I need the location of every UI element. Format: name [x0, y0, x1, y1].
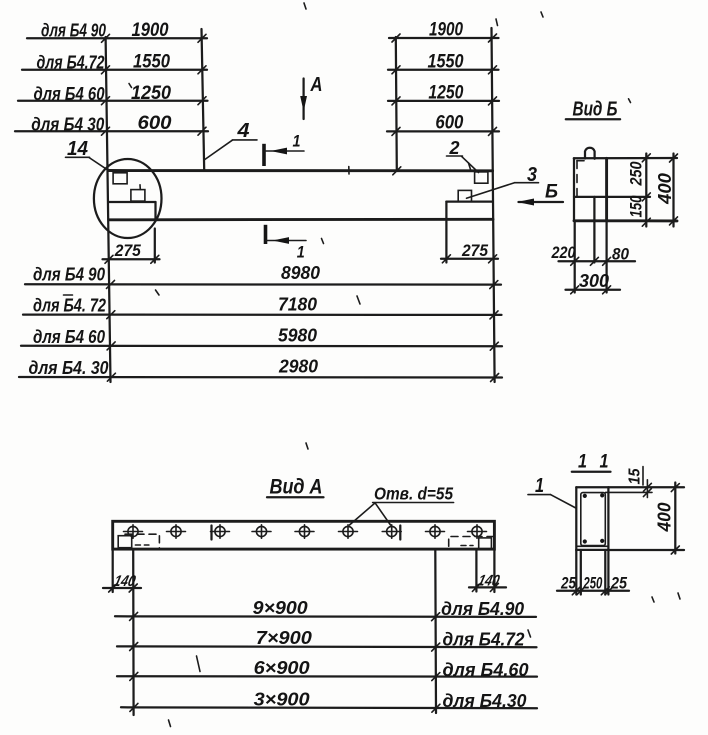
svg-text:для Б4 60: для Б4 60 [34, 83, 106, 104]
svg-text:140: 140 [476, 573, 501, 590]
svg-text:1900: 1900 [429, 19, 463, 41]
section outer right edge [607, 487, 609, 550]
extension right edge down to 300 dim [605, 221, 607, 293]
svg-text:4: 4 [236, 120, 249, 142]
dimension line row 1 (9x900) [115, 615, 536, 618]
speckle [357, 296, 360, 304]
ticks 220/80 [571, 257, 611, 265]
svg-text:1: 1 [293, 131, 301, 150]
holes label underline [373, 502, 454, 504]
svg-text:2980: 2980 [278, 357, 318, 377]
ticks 400 [671, 484, 679, 554]
ticks 250/150 [642, 154, 650, 226]
rebar dot top-left [583, 494, 587, 498]
svg-text:для Б4. 72: для Б4. 72 [33, 295, 107, 316]
speckle [496, 19, 498, 26]
hole 3 [211, 525, 230, 538]
ticks at left extension [107, 280, 116, 381]
svg-text:1: 1 [535, 475, 544, 497]
hidden ledge plan left (dashed) [125, 534, 159, 548]
extension below: outer-right [607, 550, 609, 595]
label 3 leader [467, 183, 515, 199]
top extension to 400 dim [609, 486, 684, 488]
extension below: inner-left [580, 550, 582, 595]
dim 140 right: dimension line [469, 586, 506, 588]
dim line 300 [566, 289, 621, 291]
dimension line row 3 (1250) [18, 100, 208, 102]
svg-text:3×900: 3×900 [254, 689, 311, 710]
svg-text:150: 150 [627, 195, 646, 217]
svg-text:275: 275 [461, 242, 489, 260]
hidden ledge plan right (dashed) [449, 537, 494, 550]
ticks 25/250/25 [572, 587, 613, 595]
section bottom edge [576, 549, 608, 551]
speckle [652, 597, 654, 602]
extension line left (x=396 down to beam top) [396, 37, 397, 170]
dim 140 left: ticks [109, 584, 138, 592]
right ledge top [446, 200, 492, 202]
svg-text:6×900: 6×900 [254, 657, 311, 678]
dim 275 left: extension line [154, 229, 156, 263]
dimension line row 4 (3x900) [121, 706, 537, 709]
text 15 underline [642, 467, 644, 486]
section outer top edge [576, 486, 608, 488]
section outer left edge [575, 487, 577, 550]
speckle [322, 239, 324, 244]
extension below: outer-left [575, 550, 577, 595]
extension left edge down to 300 dim [574, 221, 576, 293]
dimension line row 1 (1900) [389, 37, 499, 39]
dim line 220/80 [559, 260, 636, 262]
dim 275 left: ticks [105, 255, 159, 263]
dimension line row 4 (2980) [19, 376, 502, 379]
inner bottom line (wall) [576, 545, 608, 547]
dimension line row 2 (1550) [388, 69, 499, 71]
svg-text:1250: 1250 [131, 82, 171, 104]
holes leader 1 [350, 503, 376, 525]
speckle [169, 720, 171, 727]
detail circle at left end [94, 159, 162, 238]
ticks 400 [670, 154, 678, 225]
extension line right (x=201.5 down to beam top) [202, 29, 205, 170]
dimension line row 3 (1250) [388, 100, 499, 102]
inner stirrup [581, 493, 606, 546]
dim line 25/250/25 [557, 590, 629, 592]
svg-text:250: 250 [627, 161, 646, 186]
extension line for 15 (stirrup top) [606, 491, 653, 493]
svg-text:400: 400 [654, 172, 675, 205]
section mark 1 top: arrow line [265, 150, 305, 152]
svg-text:Вид А: Вид А [270, 476, 323, 499]
label 14 underline [66, 156, 90, 158]
svg-text:25: 25 [560, 573, 576, 592]
svg-text:140: 140 [112, 573, 137, 590]
svg-text:7180: 7180 [278, 295, 317, 315]
svg-text:для Б4.30: для Б4.30 [443, 690, 528, 711]
dimension line row 2 (7180) [23, 313, 502, 316]
extension below: inner-right [604, 550, 606, 595]
dim line 400 [672, 154, 674, 227]
speckle [541, 12, 543, 17]
ticks at right extension [490, 281, 499, 382]
dimension line row 3 (6x900) [117, 675, 537, 678]
svg-text:Б: Б [545, 182, 558, 203]
view arrow B: shaft [519, 201, 564, 203]
svg-text:7×900: 7×900 [256, 627, 313, 648]
extension line left (beam end, continues to lower block) [106, 37, 111, 382]
hole 7 [382, 525, 401, 538]
left ledge step [154, 202, 156, 220]
svg-text:1900: 1900 [132, 19, 169, 41]
tick marks right column [198, 34, 206, 135]
svg-text:1250: 1250 [428, 82, 463, 104]
inner vertical (ledge 80) extending to 220/80 dim [593, 197, 595, 263]
speckle [678, 593, 680, 599]
section mark 1 bottom: cut bar [264, 225, 268, 244]
title underline [267, 496, 324, 498]
svg-text:для Б4.90: для Б4.90 [441, 598, 525, 619]
small mark above left lower plate [139, 185, 141, 190]
dim line 250/150 [645, 154, 647, 227]
svg-text:1: 1 [578, 452, 587, 473]
speckle [304, 3, 306, 9]
label 2 leader [462, 156, 479, 172]
block right edge [605, 158, 608, 221]
right ledge step [445, 202, 447, 219]
section mark 1 bottom: arrowhead [273, 237, 290, 244]
svg-text:600: 600 [435, 112, 463, 134]
label 3 underline [515, 182, 539, 184]
dim 140 right: ticks [472, 583, 498, 591]
ticks at separator [432, 613, 440, 713]
svg-text:250: 250 [583, 574, 603, 592]
label 4 leader [205, 140, 233, 159]
label 14 leader [89, 158, 108, 171]
dim 275 right: dimension line [441, 258, 498, 260]
beam bottom edge [109, 218, 493, 221]
speckle [629, 99, 631, 103]
speckle [528, 630, 531, 637]
ticks at left vertical [130, 612, 138, 711]
title underline [566, 118, 620, 120]
svg-text:300: 300 [579, 271, 609, 291]
svg-text:15: 15 [627, 468, 644, 484]
rebar dot bottom-left [583, 539, 587, 543]
hidden dashes bottom right [461, 545, 473, 547]
dimension line row 2 (7x900) [117, 645, 537, 648]
dimension line row 4 (600) [387, 130, 499, 132]
tick marks left column [392, 34, 400, 135]
embedded plate right upper (pos.2) [475, 172, 488, 183]
dimension line row 1 (1900) [27, 37, 207, 39]
dimension line row 3 (5980) [21, 345, 502, 348]
speckle [469, 163, 472, 171]
speckle [129, 84, 132, 88]
view arrow A: head [300, 96, 307, 112]
block left edge [573, 158, 575, 221]
dim line 15 [646, 480, 648, 498]
hole 6 [339, 525, 358, 538]
svg-text:для Б4.60: для Б4.60 [443, 659, 530, 680]
svg-text:9×900: 9×900 [253, 597, 309, 618]
ticks 15 [643, 483, 651, 496]
rebar dot bottom-right [600, 539, 604, 543]
speckle [197, 656, 201, 672]
extension line right (beam right end, continues down through beam) [492, 28, 495, 382]
hidden dashes bottom left [135, 544, 149, 546]
dimension line row 2 (1550) [22, 69, 207, 71]
embedded plate left upper [113, 173, 127, 184]
hidden dash top [577, 160, 584, 162]
svg-text:для Б4.72: для Б4.72 [37, 52, 106, 73]
separator vertical (holes extension) [434, 550, 437, 713]
embedded plate right lower (pos.3) [458, 190, 471, 201]
dim 275 left: dimension line [103, 258, 160, 260]
left ledge top [109, 201, 156, 203]
macron over B4 row 2 [64, 294, 73, 296]
label 1 leader line [551, 495, 576, 508]
svg-text:80: 80 [612, 245, 629, 264]
hole 4 [252, 525, 271, 538]
mark I right of hole 7 [399, 526, 401, 540]
bottom extension to 400 dim [609, 549, 684, 551]
svg-text:25: 25 [610, 573, 627, 592]
svg-text:1: 1 [600, 452, 609, 473]
block mid ledge line + extension to 250/150 dim [574, 196, 650, 198]
dimension line row 1 (8980) [25, 283, 501, 286]
hole 5 [295, 525, 314, 538]
speckle [156, 290, 160, 295]
svg-text:275: 275 [114, 242, 142, 260]
hole 9 [468, 525, 487, 538]
holes leader 2 [375, 503, 390, 525]
hole 1 [124, 525, 143, 538]
section mark 1 top: arrowhead [271, 148, 288, 155]
section mark 1 top: cut bar [262, 144, 266, 166]
dim 275 right: extension line [445, 221, 447, 263]
label 1 underline [528, 494, 551, 496]
hole 2 [167, 525, 186, 538]
dim 140 left: extension hole (continues to bottom rows) [132, 550, 135, 716]
beam top edge [109, 169, 493, 172]
svg-text:А: А [310, 74, 323, 96]
rebar dot top-right [600, 493, 604, 497]
svg-text:8980: 8980 [281, 263, 320, 283]
svg-text:1: 1 [297, 243, 305, 262]
lifting loop [585, 148, 595, 159]
svg-text:для Б4 90: для Б4 90 [41, 19, 107, 40]
svg-text:1550: 1550 [133, 51, 170, 73]
dim 140 right: extension hole [475, 550, 477, 592]
svg-text:400: 400 [654, 502, 675, 533]
dimension line row 4 (600) [15, 130, 208, 132]
svg-text:для Б4. 30: для Б4. 30 [29, 357, 110, 378]
dim 140 left: dimension line [103, 587, 141, 589]
tick marks right column [489, 34, 497, 135]
hole 8 [426, 525, 445, 538]
view arrow A: shaft [302, 79, 304, 120]
svg-text:для Б4 30: для Б4 30 [31, 114, 105, 135]
block bottom edge + extension to 400 dim [574, 219, 677, 222]
svg-text:600: 600 [138, 112, 172, 134]
block top edge + extension to 400 dim [574, 157, 677, 160]
small mark on beam top line [348, 167, 350, 175]
dim 140 right: extension beam end [493, 550, 495, 593]
speckle [306, 443, 308, 449]
svg-text:для Б4 60: для Б4 60 [33, 326, 106, 347]
svg-text:220: 220 [551, 243, 576, 262]
embedded plate plan left (solid) [118, 536, 132, 548]
svg-text:для Б4 90: для Б4 90 [33, 264, 106, 285]
svg-text:2: 2 [449, 138, 460, 158]
tick at extension meeting beam top [393, 167, 401, 175]
title underline [572, 471, 611, 473]
label 2 underline [447, 155, 463, 157]
label 4 underline [232, 139, 257, 141]
svg-text:Отв. d=55: Отв. d=55 [374, 484, 453, 504]
tick marks left column [102, 34, 110, 135]
dim 275 right: ticks [442, 255, 496, 263]
svg-text:Вид Б: Вид Б [573, 99, 618, 121]
hidden dashed vertical at left [576, 161, 578, 197]
svg-text:5980: 5980 [278, 326, 317, 346]
plan outline [113, 521, 495, 549]
ticks 300 [571, 286, 611, 294]
mark I left of hole 3 [210, 526, 212, 540]
embedded plate plan right (solid) [479, 538, 492, 549]
embedded plate left lower [131, 190, 145, 202]
dim 140 left: extension beam end [112, 550, 114, 593]
dim line 400 [674, 483, 676, 554]
view arrow B: head [517, 199, 534, 206]
svg-text:для Б4.72: для Б4.72 [443, 628, 526, 649]
section mark 1 bottom: arrow line [266, 240, 306, 242]
svg-text:1550: 1550 [428, 50, 464, 72]
